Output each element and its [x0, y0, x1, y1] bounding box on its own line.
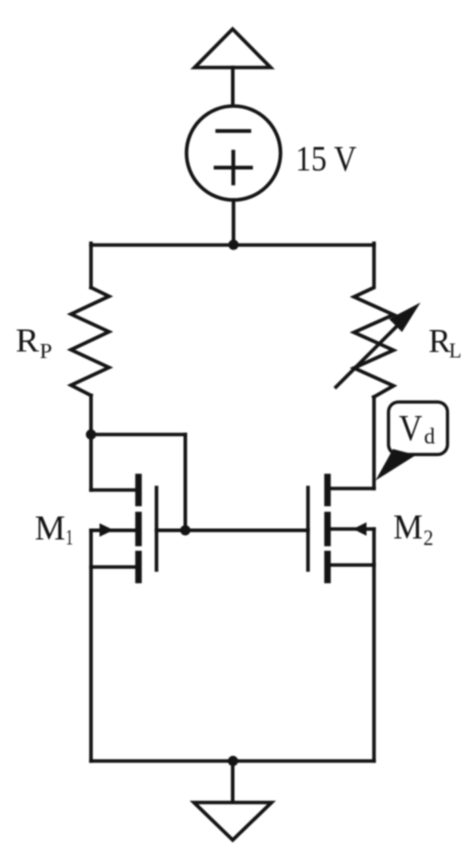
transistor M1 gate electrode [155, 488, 159, 571]
svg-text:15 V: 15 V [296, 139, 357, 179]
VDD power symbol [195, 29, 271, 68]
svg-text:d: d [424, 424, 435, 449]
label R_L [429, 323, 462, 363]
node dot: bottom rail / ground junction [228, 756, 238, 766]
wire: top rail [91, 243, 374, 247]
minus sign of V1 [217, 129, 249, 133]
label R_P [16, 323, 53, 363]
transistor M2 source stub [330, 563, 374, 567]
svg-text:L: L [449, 339, 462, 363]
wire: R_L bottom to M2 drain [327, 397, 374, 489]
svg-text:1: 1 [66, 525, 74, 550]
wire: gate bus M1 to M2 [157, 528, 309, 532]
ground symbol [194, 803, 272, 841]
label V_d [399, 408, 435, 449]
wire: source bottom to top rail [232, 200, 236, 245]
node A dot (R_P / M1 drain / gate tie) [86, 429, 96, 439]
svg-text:2: 2 [423, 525, 433, 550]
resistor R_L (variable) [354, 288, 394, 397]
svg-text:M: M [35, 508, 66, 547]
transistor M1 source stub [91, 565, 136, 569]
transistor M1 bulk stub with arrow [91, 523, 136, 536]
transistor M1 channel [135, 477, 142, 580]
value label 15 V [296, 139, 357, 179]
voltage source V1 (15 V) [187, 106, 281, 200]
callout V_d tail [376, 449, 417, 481]
wire: R_P bottom to node A [89, 395, 93, 434]
svg-text:V: V [399, 408, 423, 449]
wire: node A to gate drop [91, 433, 185, 437]
variable resistor arrow of R_L [336, 303, 421, 388]
node dot: gate bus junction [180, 525, 190, 535]
svg-text:R: R [16, 323, 40, 360]
node dot: top rail / V1 junction [228, 240, 238, 250]
resistor R_P [71, 288, 109, 396]
svg-text:P: P [40, 339, 53, 363]
wire: gate drop vertical [184, 435, 188, 531]
wire: M1 source to bottom rail [89, 530, 93, 761]
wire: top rail to R_L [372, 243, 376, 285]
wire: top rail to R_P [89, 243, 93, 287]
wire: bottom rail [91, 759, 374, 763]
label M1 [35, 508, 73, 549]
transistor M2 gate electrode [306, 488, 310, 571]
wire: node A to M1 drain [91, 435, 136, 491]
svg-text:M: M [393, 508, 423, 547]
callout V_d box [389, 402, 448, 455]
wire: power triangle to source top [231, 68, 235, 107]
svg-text:R: R [429, 323, 452, 360]
label M2 [393, 508, 433, 550]
transistor M2 bulk stub with arrow [330, 522, 374, 535]
wire: M2 source to bottom rail [372, 529, 376, 761]
transistor M2 channel [324, 477, 331, 580]
wire: bottom rail to ground [231, 761, 235, 803]
plus sign of V1 [216, 152, 251, 184]
